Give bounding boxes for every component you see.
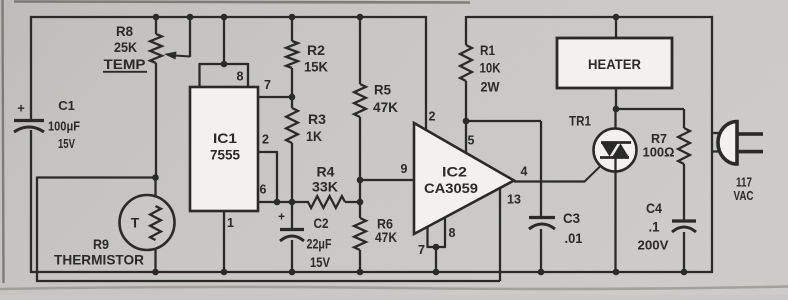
wire C2 bottom lead <box>291 240 293 273</box>
label TR1 <box>569 113 591 129</box>
wire sense loop bottom horizontal <box>36 280 500 282</box>
svg-text:15V: 15V <box>310 254 331 270</box>
wire C3 lower lead <box>540 229 542 273</box>
node dot heater/triac/snubber <box>613 106 620 113</box>
wire R5 bottom lead <box>359 117 361 202</box>
label R1 value 2W <box>481 79 501 95</box>
label IC1 pin 2 <box>262 133 269 147</box>
label R9 THERMISTOR <box>54 252 144 268</box>
node dot rail/R5 <box>357 14 364 21</box>
wire R2 top lead <box>291 17 293 41</box>
label R7 <box>651 131 667 146</box>
label IC1 <box>213 130 237 146</box>
label R8 value 25K <box>114 39 137 55</box>
svg-text:HEATER: HEATER <box>588 56 641 72</box>
wire R1 top lead <box>465 16 467 45</box>
svg-text:10K: 10K <box>480 60 501 76</box>
node dot R5/pin9 <box>357 177 364 184</box>
label R5 <box>374 82 391 98</box>
label C1 value 100uF <box>48 119 80 134</box>
wire R8 bottom lead to thermistor node <box>155 63 157 178</box>
svg-text:100Ω: 100Ω <box>643 145 675 160</box>
wire R3 bottom lead <box>291 143 293 203</box>
node dot R4/R6 <box>357 199 364 206</box>
svg-text:13: 13 <box>507 193 521 207</box>
svg-text:2: 2 <box>262 133 269 147</box>
svg-text:C2: C2 <box>314 215 329 231</box>
wire triac upper lead <box>614 109 616 142</box>
label C3 value .01 <box>565 230 583 246</box>
wire R6 top lead <box>359 202 361 218</box>
svg-text:R8: R8 <box>116 23 133 39</box>
label R4 value 33K <box>312 179 338 195</box>
svg-text:.1: .1 <box>649 219 660 235</box>
resistor R2 15K <box>286 41 298 68</box>
wire heater bottom lead <box>615 88 617 109</box>
wire R7 top lead <box>683 109 685 128</box>
label R3 <box>308 111 326 127</box>
op-amp IC1 7555 body <box>190 87 258 211</box>
node dot R1/pin5 <box>463 118 470 125</box>
svg-text:6: 6 <box>260 183 267 197</box>
label C4 value .1 <box>649 219 660 235</box>
wire plug lower stub <box>712 150 721 152</box>
svg-text:R9: R9 <box>93 236 109 252</box>
wire IC1 pin7 <box>258 96 293 98</box>
AC plug body <box>718 122 737 165</box>
label IC2 pin 9 <box>401 162 408 176</box>
wire IC2 pin8 stub <box>444 217 446 247</box>
wire bottom ground rail <box>30 271 713 273</box>
node dot rail/heater <box>613 14 620 21</box>
label IC2 pin 13 <box>507 193 521 207</box>
label C4 <box>646 200 662 216</box>
svg-text:1K: 1K <box>306 128 322 144</box>
svg-text:15V: 15V <box>58 136 75 151</box>
svg-text:1: 1 <box>227 216 234 230</box>
svg-text:IC2: IC2 <box>442 164 467 180</box>
label IC2 pin 8 <box>449 226 456 240</box>
svg-text:15K: 15K <box>304 59 328 75</box>
node dot rail/R8 <box>153 14 160 21</box>
node dot pin6/C2/R3 <box>289 199 296 206</box>
svg-text:25K: 25K <box>114 39 137 55</box>
label IC2 <box>442 164 467 180</box>
wire IC2 pin9 <box>360 179 414 181</box>
node dot C2/ground <box>289 269 296 276</box>
node dot IC2/ground <box>433 269 440 276</box>
wire IC1 pin2 <box>258 151 277 203</box>
node dot pin1/ground <box>221 269 228 276</box>
capacitor C2 <box>278 209 304 241</box>
label IC2 pin 5 <box>468 134 475 148</box>
node dot C4/ground <box>681 269 688 276</box>
svg-text:22μF: 22μF <box>307 236 332 252</box>
svg-text:9: 9 <box>401 162 408 176</box>
svg-text:C1: C1 <box>58 98 75 113</box>
wire top-right supply rail <box>466 16 713 18</box>
wire triac lower lead <box>614 158 616 273</box>
resistor R6 47K <box>354 218 366 250</box>
wire C3 upper lead <box>540 121 542 216</box>
wire left vertical (C1 branch upper) <box>30 16 32 119</box>
svg-text:+: + <box>17 101 25 116</box>
AC plug prong upper <box>736 132 763 136</box>
heater box <box>557 38 672 88</box>
node dot pin7/R2/R3 <box>289 94 296 101</box>
wire wiper riser <box>189 17 191 57</box>
label R6 value 47K <box>375 229 397 245</box>
label 117 VAC <box>734 175 754 204</box>
wire snubber top horizontal <box>616 108 684 110</box>
wire pin7-8 ground drop <box>435 247 437 273</box>
resistor R8 (pot 25K) <box>150 34 162 63</box>
svg-text:R4: R4 <box>317 164 335 180</box>
svg-text:TR1: TR1 <box>569 113 591 129</box>
label R3 value 1K <box>306 128 322 144</box>
node dot rail/R2 <box>289 14 296 21</box>
wire IC2 pin13 drop <box>499 187 501 281</box>
node dot thermistor top <box>152 174 159 181</box>
op-amp IC2 CA3059 body <box>414 123 514 234</box>
wire R2-R3 link <box>291 68 293 108</box>
label C4 value 200V <box>638 238 669 253</box>
wire IC1 pin1 stub <box>223 211 225 273</box>
svg-text:200V: 200V <box>638 238 669 253</box>
wire right vertical (AC line) <box>711 16 713 273</box>
svg-text:2: 2 <box>429 110 436 124</box>
resistor R5 47K <box>354 84 366 117</box>
wire R7-C4 link <box>683 164 685 220</box>
svg-text:.01: .01 <box>565 230 583 246</box>
label IC2 pin 2 <box>429 110 436 124</box>
label C1 value 15V <box>58 136 75 151</box>
wire IC2 pin2 drop <box>425 16 427 130</box>
svg-text:R1: R1 <box>480 42 495 58</box>
wire R4 right lead <box>345 201 361 203</box>
label R8 <box>116 23 133 39</box>
label R6 <box>377 216 393 232</box>
node dot pin7-8 tie <box>433 244 440 251</box>
svg-text:+: + <box>278 209 285 223</box>
resistor R7 100ohm <box>678 128 690 164</box>
label C2 value 15V <box>310 254 331 270</box>
wire IC1 supply drop <box>223 17 225 64</box>
label R1 <box>480 42 495 58</box>
svg-text:C3: C3 <box>563 210 580 226</box>
svg-text:47K: 47K <box>375 229 397 245</box>
wire IC1 pin8/4 bracket <box>200 63 249 88</box>
svg-text:8: 8 <box>237 70 244 84</box>
node dot IC1 pins 8-4 tie <box>221 61 228 68</box>
svg-text:8: 8 <box>449 226 456 240</box>
label IC2 CA3059 <box>424 180 478 196</box>
wire pin5 node to C3 <box>466 120 541 122</box>
transistor TR1 triac <box>594 129 637 172</box>
svg-text:7: 7 <box>264 78 271 92</box>
capacitor C3 <box>529 218 555 230</box>
capacitor C1 <box>14 101 44 132</box>
label C2 value 22uF <box>307 236 332 252</box>
node dot rail/IC1 supply <box>221 14 228 21</box>
node dot R6/ground <box>357 269 364 276</box>
wire R6 bottom lead <box>359 250 361 273</box>
label R9 <box>93 236 109 252</box>
AC plug prong lower <box>736 150 763 154</box>
wire left vertical (C1 branch lower) <box>30 130 32 273</box>
label IC1 pin 8 <box>237 70 244 84</box>
svg-text:4: 4 <box>521 165 528 179</box>
svg-text:R2: R2 <box>307 42 325 58</box>
svg-text:IC1: IC1 <box>213 130 237 146</box>
svg-text:CA3059: CA3059 <box>424 180 478 196</box>
wire R8 top lead <box>155 17 157 34</box>
label IC1 pin 6 <box>260 183 267 197</box>
node dot triac/ground <box>613 269 620 276</box>
wire IC2 pin4 output <box>514 180 585 182</box>
wire IC2 pin5 stub <box>465 121 467 153</box>
wire heater top lead <box>615 17 617 38</box>
label R2 value 15K <box>304 59 328 75</box>
node dot thermistor/ground <box>152 269 159 276</box>
label IC1 7555 <box>210 147 240 163</box>
wire IC2 pin7-8 bracket <box>427 246 447 248</box>
svg-text:2W: 2W <box>481 79 501 95</box>
svg-text:47K: 47K <box>373 99 398 115</box>
wire R1 bottom lead <box>465 81 467 121</box>
svg-text:TEMP: TEMP <box>104 56 146 72</box>
label IC2 pin 7 <box>418 243 425 257</box>
label R7 value 100ohm <box>643 145 675 160</box>
label C3 <box>563 210 580 226</box>
wire thermistor upper lead <box>154 177 156 196</box>
wire plug upper stub <box>712 132 721 134</box>
svg-text:THERMISTOR: THERMISTOR <box>54 252 144 268</box>
wire thermistor lower lead <box>154 249 156 273</box>
svg-text:100μF: 100μF <box>48 119 80 134</box>
label R1 value 10K <box>480 60 501 76</box>
label C2 <box>314 215 329 231</box>
label C1 <box>58 98 75 113</box>
node dot C3/ground <box>538 269 545 276</box>
svg-text:C4: C4 <box>646 200 662 216</box>
label IC1 pin 7 <box>264 78 271 92</box>
resistor R1 10K 2W <box>460 45 472 81</box>
label R5 value 47K <box>373 99 398 115</box>
label R4 <box>317 164 335 180</box>
wire sense loop left vertical <box>36 178 38 282</box>
resistor R4 33K <box>308 196 345 208</box>
svg-text:5: 5 <box>468 134 475 148</box>
node dot pin6/pin2 <box>274 199 281 206</box>
wire IC2 pin7 stub <box>426 226 428 247</box>
wire thermistor top horizontal <box>36 176 156 178</box>
wire C4 bottom lead <box>683 232 685 273</box>
svg-text:7: 7 <box>418 243 425 257</box>
node dot rail/wiper <box>187 14 194 21</box>
label R8 TEMP <box>103 56 147 72</box>
wire C2 top lead <box>291 202 293 229</box>
wire triac gate lead <box>584 167 600 183</box>
svg-text:R5: R5 <box>374 82 391 98</box>
resistor R3 1K <box>286 108 298 143</box>
svg-text:VAC: VAC <box>734 188 754 203</box>
wire IC1 pin6 <box>258 201 309 203</box>
capacitor C4 <box>672 221 696 232</box>
label HEATER <box>588 56 641 72</box>
label R2 <box>307 42 325 58</box>
wire R5 top lead <box>359 17 361 84</box>
potentiometer R8 wiper arrow <box>164 52 190 60</box>
wire top-left supply rail <box>30 16 427 18</box>
thermistor R9 <box>120 195 175 250</box>
svg-text:7555: 7555 <box>210 147 240 163</box>
svg-text:R3: R3 <box>308 111 326 127</box>
svg-text:33K: 33K <box>312 179 338 195</box>
svg-text:T: T <box>131 215 140 231</box>
label IC2 pin 4 <box>521 165 528 179</box>
label IC1 pin 1 <box>227 216 234 230</box>
